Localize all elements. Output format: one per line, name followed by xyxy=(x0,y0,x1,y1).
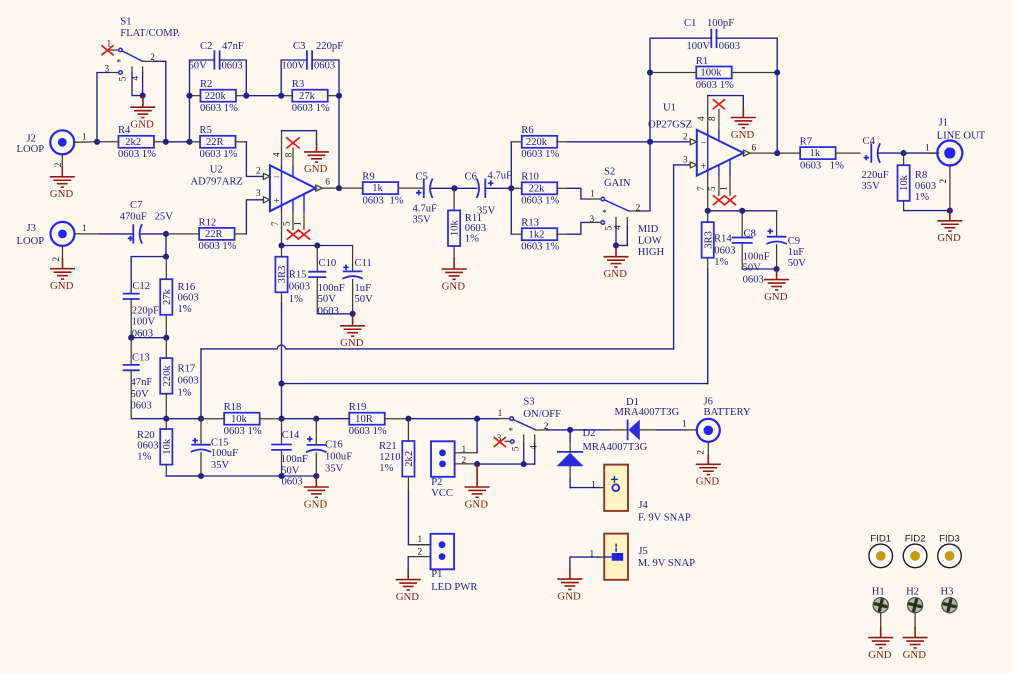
svg-text:H3: H3 xyxy=(941,587,954,598)
junction J2-R4 xyxy=(94,139,100,145)
svg-text:C5: C5 xyxy=(416,172,428,183)
svg-text:220k: 220k xyxy=(162,365,173,387)
wire U1 pin3 xyxy=(674,164,690,166)
pin R14 top xyxy=(707,211,709,222)
svg-text:100uF: 100uF xyxy=(325,452,352,463)
op-amp U2 pin 5 no-connect xyxy=(292,199,294,211)
capacitor C3 xyxy=(306,50,308,69)
pin R19 left xyxy=(348,418,350,420)
svg-text:U1: U1 xyxy=(663,102,676,113)
wire S1 pin2 to R4 node xyxy=(143,60,154,62)
svg-text:−: − xyxy=(274,173,280,184)
svg-text:6: 6 xyxy=(325,178,330,188)
op-amp U2 body xyxy=(270,165,316,211)
svg-text:0603: 0603 xyxy=(282,477,303,488)
svg-text:4: 4 xyxy=(697,116,707,121)
svg-text:0603 1%: 0603 1% xyxy=(224,426,262,437)
svg-text:OP27GSZ: OP27GSZ xyxy=(648,119,692,130)
junction R17-R20-R18row xyxy=(163,416,169,422)
svg-text:FLAT/COMP.: FLAT/COMP. xyxy=(120,28,180,39)
svg-text:50V: 50V xyxy=(131,389,150,400)
junction line1-C15-R18row xyxy=(198,416,204,422)
wire C6 left xyxy=(455,187,477,189)
svg-text:H2: H2 xyxy=(906,587,919,598)
svg-text:2: 2 xyxy=(544,422,549,432)
svg-text:2: 2 xyxy=(636,204,641,214)
svg-text:U2: U2 xyxy=(210,165,223,176)
svg-text:0603: 0603 xyxy=(318,306,339,317)
pin R12 right xyxy=(235,233,247,235)
ground R11 xyxy=(442,257,467,279)
wire C7 node down xyxy=(165,234,167,257)
resistor R19 xyxy=(349,413,385,425)
svg-text:1%: 1% xyxy=(915,192,929,203)
ground H1 xyxy=(868,627,893,648)
op-amp U1 body xyxy=(697,130,744,176)
svg-text:4: 4 xyxy=(273,152,283,157)
svg-text:0603 1%: 0603 1% xyxy=(200,149,238,160)
svg-text:50V: 50V xyxy=(355,294,374,305)
pin D1 right xyxy=(640,429,657,431)
svg-text:3: 3 xyxy=(256,189,261,199)
junction U2 output xyxy=(336,185,342,191)
op-amp U2 pin 4 xyxy=(281,166,283,212)
ground J2 xyxy=(50,166,75,187)
capacitor C12 xyxy=(123,293,140,295)
connector J4 xyxy=(604,465,628,511)
svg-text:1%: 1% xyxy=(178,304,192,315)
svg-text:5: 5 xyxy=(708,186,718,191)
pin R12 left xyxy=(166,233,199,235)
pin R4 right xyxy=(154,141,166,143)
junction C7-R12 xyxy=(163,231,169,237)
svg-text:1210: 1210 xyxy=(379,452,400,463)
wire P2 pin1 up xyxy=(476,419,478,453)
connector J1 xyxy=(937,141,962,166)
svg-text:5: 5 xyxy=(282,221,292,226)
junction C4-R8 xyxy=(901,150,907,156)
svg-text:GND: GND xyxy=(340,337,364,349)
svg-text:R10: R10 xyxy=(521,172,539,183)
pin R16 bottom xyxy=(165,315,167,338)
svg-text:3R3: 3R3 xyxy=(277,266,288,284)
pin R1 right xyxy=(732,72,777,74)
wire C3 right xyxy=(312,60,339,96)
svg-text:1%: 1% xyxy=(137,452,151,463)
svg-text:1: 1 xyxy=(498,409,503,419)
svg-text:0603: 0603 xyxy=(465,223,486,234)
svg-text:R5: R5 xyxy=(200,125,212,136)
svg-text:J6: J6 xyxy=(704,397,713,408)
junction U1 output xyxy=(774,150,780,156)
svg-text:1: 1 xyxy=(590,549,595,559)
junction R21 top xyxy=(405,416,411,422)
switch S3 arm xyxy=(513,419,536,430)
ground J3 xyxy=(50,258,75,279)
ground C10/C11 xyxy=(340,314,365,336)
resistor R11 xyxy=(448,210,460,246)
resistor R14 xyxy=(702,222,714,258)
switch S1 no-connect X pin 1 xyxy=(102,46,113,55)
op-amp U1 pin 7 xyxy=(707,175,709,210)
svg-text:C10: C10 xyxy=(319,258,337,269)
wire C2 right xyxy=(220,60,247,96)
wire R18 to C16 xyxy=(282,418,317,420)
pin J2 1 xyxy=(74,141,97,144)
op-amp U1 pin 5 no-connect xyxy=(718,165,720,176)
svg-text:22R: 22R xyxy=(206,137,225,148)
pin J6 2 xyxy=(707,442,709,455)
svg-text:ON/OFF: ON/OFF xyxy=(523,409,561,420)
switch S1 contact pin 1 xyxy=(119,48,123,52)
pin C12 bottom xyxy=(130,299,132,338)
pin C15 top xyxy=(200,419,202,445)
switch S1 pins 5 and 4 xyxy=(131,67,133,73)
svg-text:35V: 35V xyxy=(413,215,432,226)
svg-text:4: 4 xyxy=(131,76,141,81)
svg-text:1: 1 xyxy=(107,39,112,49)
pin P2 2 xyxy=(455,463,478,465)
junction C9 bottom xyxy=(774,266,780,272)
junction C8 top xyxy=(739,208,745,214)
pin R13 left xyxy=(511,233,522,235)
svg-text:1: 1 xyxy=(591,480,596,490)
svg-text:8: 8 xyxy=(284,152,294,157)
junction C14 top xyxy=(278,416,284,422)
pin J2 2 xyxy=(61,154,63,166)
pin C10 bottom xyxy=(316,277,318,314)
pin S3 1 stub xyxy=(499,418,510,420)
junction P2 pin1 node xyxy=(474,416,480,422)
svg-text:R21: R21 xyxy=(379,441,397,452)
switch S3 contact pin 3 xyxy=(510,440,514,444)
svg-text:50V: 50V xyxy=(788,258,807,269)
pin C15 bottom xyxy=(200,453,202,477)
connector P1 xyxy=(431,534,455,570)
junction R2 left xyxy=(186,93,192,99)
junction C16 bottom xyxy=(313,473,319,479)
pin P2 1 xyxy=(455,452,478,454)
ground J1 xyxy=(937,211,962,232)
svg-text:GND: GND xyxy=(937,232,961,244)
ground S2 xyxy=(604,245,629,267)
diode D2 xyxy=(557,451,583,453)
resistor R21 xyxy=(402,441,414,477)
resistor R3 xyxy=(292,90,328,102)
svg-text:1: 1 xyxy=(418,535,423,545)
svg-text:+: + xyxy=(274,196,280,207)
svg-text:MRA4007T3G: MRA4007T3G xyxy=(615,407,680,418)
svg-text:R17: R17 xyxy=(178,364,196,375)
svg-text:R18: R18 xyxy=(224,402,242,413)
junction C12 branch xyxy=(163,254,169,260)
pin C14 bottom xyxy=(281,450,283,476)
svg-text:50V: 50V xyxy=(743,263,762,274)
svg-text:100pF: 100pF xyxy=(707,18,734,29)
pin R17 top xyxy=(165,338,167,359)
svg-text:100V: 100V xyxy=(132,316,156,327)
svg-text:GND: GND xyxy=(50,280,74,292)
svg-text:GND: GND xyxy=(557,590,581,602)
svg-text:R14: R14 xyxy=(714,234,732,245)
svg-text:C11: C11 xyxy=(355,258,372,269)
svg-text:R1: R1 xyxy=(696,56,708,67)
wire feedback line1 with hop xyxy=(201,345,674,349)
switch S2 contact pin 1 xyxy=(601,197,605,201)
capacitor C15 xyxy=(191,444,211,446)
svg-text:0603: 0603 xyxy=(915,181,936,192)
svg-text:220k: 220k xyxy=(526,137,548,148)
svg-text:C2: C2 xyxy=(200,41,212,52)
resistor R17 xyxy=(160,358,172,394)
switch S1 arm xyxy=(121,50,142,61)
pin C9 top xyxy=(776,211,778,237)
svg-text:2: 2 xyxy=(939,179,949,184)
junction C10 top xyxy=(314,242,320,248)
pin R17 bottom xyxy=(165,394,167,419)
op-amp U2 pin 8 no-connect xyxy=(292,166,294,177)
svg-text:47nF: 47nF xyxy=(131,377,153,388)
resistor R5 xyxy=(200,136,236,148)
svg-text:1k2: 1k2 xyxy=(529,229,545,240)
svg-text:2: 2 xyxy=(256,167,261,177)
wire feedback right leg xyxy=(776,73,778,154)
wire U1 pin4 to ground xyxy=(708,96,744,107)
pin R3 left xyxy=(281,95,292,97)
svg-text:50V: 50V xyxy=(189,61,208,72)
wire C4 to J1 xyxy=(879,152,939,154)
svg-text:0603: 0603 xyxy=(363,195,384,206)
svg-text:0603: 0603 xyxy=(131,401,152,412)
svg-text:2k2: 2k2 xyxy=(125,137,141,148)
pin C13 bottom xyxy=(130,370,132,418)
switch S2 contact pin 3 xyxy=(601,221,605,225)
wire U1 bottom rail xyxy=(708,210,777,212)
wire U2 pin4 to ground xyxy=(282,131,317,142)
svg-text:2: 2 xyxy=(683,132,688,142)
pin D1 left xyxy=(570,429,610,431)
svg-text:1: 1 xyxy=(82,133,87,143)
svg-text:6: 6 xyxy=(752,144,757,154)
wire C2/R2 left to J2 row xyxy=(189,96,191,142)
capacitor C8 xyxy=(732,237,753,239)
svg-text:0603: 0603 xyxy=(289,282,310,293)
pin R11 top xyxy=(453,188,455,210)
wire S3 pin2 to D-node xyxy=(536,429,547,431)
svg-text:GND: GND xyxy=(764,291,788,303)
svg-text:R15: R15 xyxy=(289,270,307,281)
pin R16 top xyxy=(165,257,167,280)
pin C10 top xyxy=(316,246,318,272)
pin R18 left xyxy=(201,418,224,420)
svg-text:C13: C13 xyxy=(132,353,150,364)
wire H2 to ground xyxy=(914,613,916,627)
pin C11 top xyxy=(352,246,354,272)
resistor R8 xyxy=(898,165,910,201)
resistor R18 xyxy=(224,413,260,425)
wire U1 pin2 xyxy=(650,141,690,143)
svg-text:100uF: 100uF xyxy=(211,448,238,459)
pin C16 bottom xyxy=(315,453,317,476)
svg-text:0603 1%: 0603 1% xyxy=(521,196,559,207)
svg-text:*: * xyxy=(509,427,514,437)
pin R18 right xyxy=(260,418,282,420)
junction C16 top xyxy=(313,416,319,422)
pin J1 1 xyxy=(927,152,939,154)
wire gain node vertical xyxy=(510,142,512,234)
resistor R7 xyxy=(800,147,836,159)
junction D2 node xyxy=(567,427,573,433)
resistor R6 xyxy=(522,136,558,148)
resistor R1 xyxy=(696,67,732,79)
svg-text:27k: 27k xyxy=(162,288,173,305)
wire C6 right to junction xyxy=(485,187,511,189)
capacitor C5 xyxy=(423,179,425,198)
wire to S3 pin1 xyxy=(477,418,498,420)
svg-text:470uF: 470uF xyxy=(120,212,147,223)
wire R5 to U2 pin2 xyxy=(246,142,263,177)
connector J5 xyxy=(604,534,628,580)
svg-text:3R3: 3R3 xyxy=(703,231,714,249)
pin R20 bottom xyxy=(165,465,167,477)
svg-text:GND: GND xyxy=(731,129,755,141)
svg-text:2: 2 xyxy=(52,257,62,262)
svg-text:100nF: 100nF xyxy=(743,251,770,262)
wire P1 pin2 to ground xyxy=(407,557,409,570)
svg-text:1%: 1% xyxy=(714,257,728,268)
svg-text:8: 8 xyxy=(708,116,718,121)
resistor R20 xyxy=(160,429,172,465)
svg-text:220pF: 220pF xyxy=(132,306,159,317)
svg-text:R12: R12 xyxy=(199,217,217,228)
pin R2 right xyxy=(236,95,246,97)
svg-text:220uF: 220uF xyxy=(862,170,889,181)
resistor R4 xyxy=(118,136,154,148)
pin C8 top xyxy=(741,211,743,238)
pin R10 left xyxy=(511,187,522,189)
pin C8 bottom xyxy=(741,243,743,269)
svg-text:0603 1%: 0603 1% xyxy=(200,103,238,114)
svg-text:C1: C1 xyxy=(684,18,696,29)
ground J5 xyxy=(557,569,582,590)
svg-text:C14: C14 xyxy=(282,430,300,441)
svg-text:+: + xyxy=(701,161,707,172)
svg-text:1: 1 xyxy=(293,221,303,226)
svg-text:BATTERY: BATTERY xyxy=(704,407,751,418)
ground C8/C9 xyxy=(764,269,789,290)
pin R6 right xyxy=(557,141,568,143)
svg-text:*: * xyxy=(602,209,607,219)
svg-text:1: 1 xyxy=(82,224,87,234)
junction R1 left xyxy=(647,69,653,75)
op-amp U1 input arrow pin 3 xyxy=(690,162,697,168)
svg-text:GND: GND xyxy=(868,649,892,661)
wire R3/C3 right to U2 output xyxy=(338,96,340,188)
wire R8 to J1 pin2 xyxy=(904,210,950,212)
svg-text:C6: C6 xyxy=(465,172,477,183)
svg-text:1: 1 xyxy=(590,190,595,200)
pin R21 top xyxy=(407,419,409,441)
pin R6 left xyxy=(511,141,522,143)
svg-text:R2: R2 xyxy=(200,79,212,90)
wire feedback left leg xyxy=(649,73,651,142)
wire C5 to junction xyxy=(432,187,455,189)
op-amp U1 pin 8 no-connect xyxy=(718,130,720,141)
svg-text:LED PWR: LED PWR xyxy=(431,582,478,593)
svg-text:1uF: 1uF xyxy=(355,283,372,294)
svg-text:10k: 10k xyxy=(450,220,461,237)
pin C11 bottom xyxy=(352,280,354,314)
svg-text:C7: C7 xyxy=(130,200,142,211)
wire C3 left xyxy=(281,60,307,96)
svg-text:0603: 0603 xyxy=(314,61,335,72)
svg-text:R3: R3 xyxy=(292,79,304,90)
capacitor C1 xyxy=(710,29,712,48)
pin R15 bottom xyxy=(281,292,283,303)
pin R11 bottom xyxy=(453,246,455,257)
wire feedback line2 xyxy=(282,383,708,385)
svg-text:S2: S2 xyxy=(604,166,615,177)
wire C2 left xyxy=(190,60,215,96)
svg-text:FID1: FID1 xyxy=(870,534,891,545)
svg-text:LINE OUT: LINE OUT xyxy=(937,130,986,141)
junction U2 pin7 rail xyxy=(278,242,284,248)
svg-text:R20: R20 xyxy=(137,430,155,441)
wire R21 to P1 pin1 xyxy=(408,490,430,545)
capacitor C11 xyxy=(343,270,363,272)
svg-text:0603 1%: 0603 1% xyxy=(199,241,237,252)
svg-text:1: 1 xyxy=(682,420,687,430)
pin J1 2 xyxy=(949,165,951,211)
pin J3 1 xyxy=(74,233,100,235)
wire U2 bottom rail xyxy=(282,245,353,247)
wire R14 to feedback line2 xyxy=(707,269,709,384)
pin D2 top xyxy=(569,430,571,441)
svg-text:50V: 50V xyxy=(318,294,337,305)
svg-text:GND: GND xyxy=(696,476,720,488)
svg-text:5: 5 xyxy=(512,446,522,451)
svg-text:M. 9V SNAP: M. 9V SNAP xyxy=(638,558,695,569)
switch S2 pins 5 and 4 xyxy=(615,218,617,227)
svg-text:1: 1 xyxy=(719,186,729,191)
wire U1 output to junction xyxy=(750,152,777,154)
wire P2 pin2 to S3 xyxy=(477,463,524,465)
svg-text:R13: R13 xyxy=(521,218,539,229)
svg-text:4.7uF: 4.7uF xyxy=(413,204,438,215)
svg-text:0603 1%: 0603 1% xyxy=(349,426,387,437)
svg-text:0603 1%: 0603 1% xyxy=(696,80,734,91)
wire C7 to node xyxy=(141,233,166,235)
capacitor C4 xyxy=(870,143,872,162)
pin D2 bottom xyxy=(569,466,571,478)
svg-text:1%: 1% xyxy=(289,294,303,305)
op-amp U2 input arrow pin 3 xyxy=(263,197,270,203)
pin S3 3 stub xyxy=(505,440,510,442)
svg-text:0603: 0603 xyxy=(222,61,243,72)
wire C13 to R18 row xyxy=(131,418,166,420)
svg-text:GND: GND xyxy=(903,649,927,661)
svg-text:J5: J5 xyxy=(638,546,647,557)
capacitor C2 xyxy=(213,50,215,69)
junction C11 bottom xyxy=(350,311,356,317)
svg-text:GND: GND xyxy=(130,119,154,131)
svg-text:LOOP: LOOP xyxy=(17,236,45,247)
svg-text:10k: 10k xyxy=(162,438,173,455)
op-amp U1 pin 1 no-connect xyxy=(729,159,731,175)
pin R2 left xyxy=(190,95,201,97)
pin C14 top xyxy=(281,419,283,445)
svg-text:J1: J1 xyxy=(939,118,948,129)
